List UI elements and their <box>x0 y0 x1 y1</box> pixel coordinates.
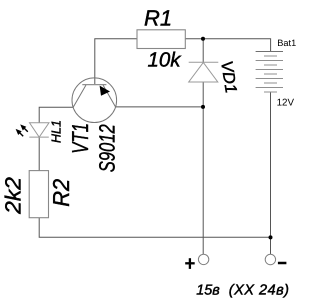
wire VD1 anode to plus terminal <box>202 82 204 254</box>
svg-text:R2: R2 <box>48 179 74 207</box>
svg-text:Bat1: Bat1 <box>277 38 296 48</box>
diode VD1 <box>189 62 219 82</box>
svg-text:12V: 12V <box>277 98 295 109</box>
svg-text:(XX 24в): (XX 24в) <box>229 282 290 298</box>
svg-text:10k: 10k <box>148 49 183 72</box>
svg-text:S9012: S9012 <box>95 124 120 172</box>
wire top rail from base corner to R1 left <box>95 39 137 85</box>
node junction dot emitter <box>201 105 205 109</box>
wire battery bottom to minus terminal <box>270 92 272 254</box>
collector leg <box>73 85 86 107</box>
node junction dot bottom right <box>269 235 273 239</box>
emitter leg <box>103 85 116 107</box>
svg-text:15в: 15в <box>196 282 220 298</box>
LED arrow 2 <box>16 129 24 136</box>
svg-text:VT1: VT1 <box>67 123 93 154</box>
battery Bat1 <box>256 52 283 93</box>
wire top node to VD1 cathode <box>202 39 204 63</box>
wire emitter to VD1 branch <box>116 106 204 108</box>
wire R1 right to battery top corner <box>185 39 270 52</box>
base bar <box>82 84 106 86</box>
wire LED to R2 <box>38 137 40 171</box>
wire R2 to bottom rail <box>39 218 270 238</box>
terminal minus <box>265 254 275 264</box>
wire collector to LED <box>39 107 73 123</box>
transistor VT1 <box>72 78 117 123</box>
node junction dot top <box>201 37 205 41</box>
resistor R2 <box>29 171 48 218</box>
svg-text:HL1: HL1 <box>48 120 63 143</box>
terminal plus <box>198 254 208 264</box>
minus sign <box>278 262 287 265</box>
resistor R1 <box>137 30 185 49</box>
emitter arrow <box>100 86 110 96</box>
LED HL1 <box>29 123 49 137</box>
LED arrow 1 <box>20 124 28 131</box>
svg-text:2k2: 2k2 <box>1 177 26 215</box>
svg-text:R1: R1 <box>144 5 172 30</box>
plus sign <box>185 258 195 269</box>
